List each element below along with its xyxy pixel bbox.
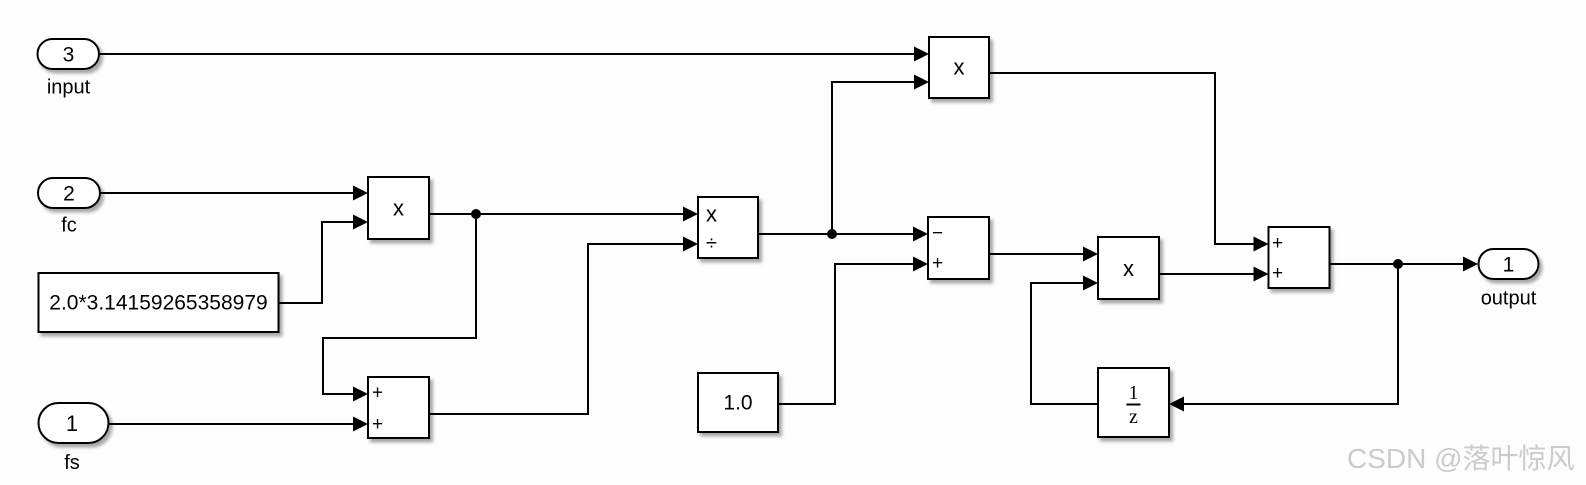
svg-text:fs: fs — [64, 452, 80, 474]
svg-text:CSDN @落叶惊风: CSDN @落叶惊风 — [1347, 443, 1575, 474]
wire divide out to subtract in1 — [758, 227, 928, 242]
wire unit delay out to product P2 in2 — [1030, 276, 1098, 406]
svg-text:z: z — [1129, 406, 1138, 428]
svg-text:input: input — [47, 77, 91, 99]
product block P1 (fc*2pi) — [368, 177, 429, 239]
svg-text:÷: ÷ — [706, 233, 717, 255]
wire fc to product P1 in1 — [100, 186, 368, 201]
inport 1 oval — [39, 403, 109, 443]
constant block 2.0*3.14159265358979 — [39, 273, 279, 332]
svg-text:1: 1 — [1129, 382, 1139, 404]
wire fs to sum S1 in2 — [108, 417, 368, 432]
wire constant 1.0 to subtract in2 — [778, 257, 928, 406]
svg-text:1.0: 1.0 — [723, 392, 752, 415]
svg-text:x: x — [706, 202, 717, 227]
constant block 1.0 — [698, 373, 778, 432]
junction dot D3 — [1393, 259, 1403, 269]
wire subtract out to product P2 in1 — [989, 247, 1098, 262]
svg-text:−: − — [932, 223, 943, 244]
inport 3 oval — [38, 39, 100, 69]
sum block S2 (+ +) — [1269, 227, 1330, 288]
svg-text:output: output — [1481, 288, 1537, 310]
wire D1 down to sum S1 in1 — [322, 214, 477, 402]
svg-text:+: + — [1272, 233, 1283, 254]
wire product P2 out to sum S2 in2 — [1159, 267, 1269, 282]
sum block subtract (- +) — [928, 217, 989, 279]
outport 1 oval — [1479, 249, 1539, 279]
wire input3 to top product in1 — [99, 47, 929, 62]
svg-text:2: 2 — [63, 183, 75, 206]
sum block S1 (+ +) — [368, 377, 429, 438]
svg-text:+: + — [372, 414, 383, 435]
svg-text:fc: fc — [61, 215, 77, 237]
svg-text:+: + — [372, 383, 383, 404]
svg-text:2.0*3.14159265358979: 2.0*3.14159265358979 — [49, 292, 267, 315]
wire D2 up to top product in2 — [831, 75, 929, 235]
junction dot D2 — [827, 229, 837, 239]
svg-text:+: + — [932, 253, 943, 274]
divide block (x over divide) — [698, 197, 758, 258]
wire top product out to sum S2 in1 — [989, 72, 1269, 252]
wire constant 2pi to product P1 in2 — [278, 215, 368, 305]
product block top (input*) — [929, 37, 989, 98]
svg-text:x: x — [393, 196, 404, 221]
svg-text:+: + — [1272, 263, 1283, 284]
junction dot D1 — [471, 209, 481, 219]
inport 2 oval — [38, 178, 100, 208]
svg-text:x: x — [954, 55, 965, 80]
svg-text:1: 1 — [1503, 254, 1515, 277]
product block P2 — [1098, 237, 1159, 299]
unit delay block 1/z — [1098, 368, 1169, 437]
wire sum S2 out to outport — [1330, 257, 1479, 272]
svg-text:x: x — [1123, 256, 1134, 281]
svg-text:3: 3 — [63, 44, 75, 67]
wire sum S1 out to divide in2 — [429, 237, 698, 416]
wire D3 down to unit delay input (right side) — [1169, 264, 1399, 412]
svg-text:1: 1 — [66, 411, 78, 436]
wire product P1 out to divide in1 — [429, 207, 698, 222]
